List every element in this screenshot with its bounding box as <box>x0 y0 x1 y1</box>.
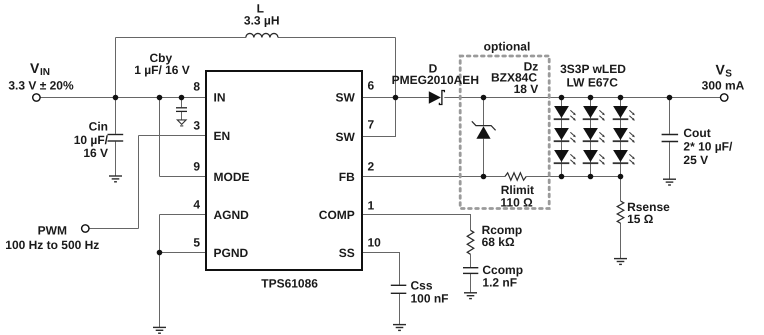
svg-text:1: 1 <box>368 199 375 213</box>
wire zener bottom drop to FB rail <box>483 139 485 177</box>
svg-text:Css: Css <box>411 278 433 292</box>
node zener top junction <box>481 95 487 101</box>
svg-text:optional: optional <box>484 39 531 53</box>
LED D1 <box>554 106 576 121</box>
svg-text:2* 10 µF/: 2* 10 µF/ <box>683 140 733 154</box>
svg-text:110 Ω: 110 Ω <box>500 195 533 209</box>
svg-text:IN: IN <box>214 90 226 104</box>
wire AGND stub <box>160 214 207 216</box>
wire MODE stub <box>160 176 207 178</box>
wire inductor loop top left segment <box>116 37 246 39</box>
terminal VS <box>721 94 728 101</box>
capacitor Ccomp <box>463 268 478 274</box>
wire PGND stub <box>160 252 207 254</box>
wire EN stub <box>139 135 207 137</box>
svg-text:V: V <box>30 60 40 76</box>
svg-text:COMP: COMP <box>319 208 355 222</box>
node VIN/Cby junction <box>179 95 185 101</box>
svg-text:10: 10 <box>368 236 382 250</box>
wire VIN rail <box>40 97 206 99</box>
svg-text:25 V: 25 V <box>683 153 708 167</box>
zener diode Dz BZX84C <box>472 121 496 139</box>
resistor Rcomp (vertical zigzag) <box>467 230 474 254</box>
svg-text:1 µF/ 16 V: 1 µF/ 16 V <box>134 63 190 77</box>
LED D8 <box>583 150 605 165</box>
svg-text:3.3 µH: 3.3 µH <box>244 14 280 28</box>
optional dashed box <box>460 56 549 209</box>
svg-text:18 V: 18 V <box>514 82 539 96</box>
svg-text:LW E67C: LW E67C <box>567 75 619 89</box>
capacitor Cin <box>108 135 124 142</box>
IC U1 TPS61086 body <box>206 71 362 270</box>
node LED col3 bottom <box>618 174 624 180</box>
terminal PWM <box>82 225 89 232</box>
node VIN/inductor/Cin junction <box>113 95 119 101</box>
node LED col2 top <box>588 95 594 101</box>
svg-text:PMEG2010AEH: PMEG2010AEH <box>392 73 479 87</box>
svg-text:16 V: 16 V <box>83 146 108 160</box>
svg-text:68 kΩ: 68 kΩ <box>482 235 515 249</box>
svg-text:PWM: PWM <box>38 224 67 238</box>
svg-text:Cin: Cin <box>89 120 108 134</box>
svg-text:3S3P wLED: 3S3P wLED <box>560 62 626 76</box>
wire AGND to PGND riser <box>159 215 161 253</box>
wire Rlimit to LED bottom rail <box>526 176 620 178</box>
svg-text:15 Ω: 15 Ω <box>627 212 654 226</box>
svg-text:TPS61086: TPS61086 <box>261 276 318 290</box>
capacitor Css <box>391 285 407 293</box>
wire Cout drop <box>669 98 671 134</box>
ground (Cout) <box>663 179 676 185</box>
svg-text:300 mA: 300 mA <box>702 78 745 92</box>
svg-text:3: 3 <box>193 119 200 133</box>
node LED col1 top <box>559 95 565 101</box>
svg-text:6: 6 <box>368 79 375 93</box>
wire Cby stub <box>181 98 183 108</box>
wire SW pin7 link <box>362 98 396 137</box>
wire LED column 2 <box>590 98 592 177</box>
svg-text:MODE: MODE <box>214 170 250 184</box>
svg-text:100 nF: 100 nF <box>411 292 449 306</box>
LED array 3S3P <box>554 106 635 165</box>
wire Rsense top lead <box>620 177 622 202</box>
svg-text:SW: SW <box>335 130 355 144</box>
wire LED column 1 <box>561 98 563 177</box>
svg-text:EN: EN <box>214 129 231 143</box>
wire Ccomp to ground <box>470 274 472 293</box>
LED D9 <box>613 150 635 165</box>
svg-text:PGND: PGND <box>214 246 249 260</box>
wire EN riser down to PWM <box>138 136 140 229</box>
node LED col3 top <box>618 95 624 101</box>
wire Cout to ground <box>669 142 671 179</box>
inductor L 3.3 uH <box>246 33 278 37</box>
wire Rcomp to Ccomp <box>470 254 472 267</box>
ground (Cin) <box>109 176 122 182</box>
wire output rail to VS <box>484 97 721 99</box>
diode D PMEG2010AEH (schottky) <box>429 91 445 105</box>
terminal VIN <box>33 94 40 101</box>
wire SS from IC <box>362 253 400 285</box>
LED D4 <box>554 128 576 143</box>
ground (Cby, arrow style) <box>177 120 186 126</box>
svg-text:1.2 nF: 1.2 nF <box>482 275 517 289</box>
ground (Css) <box>393 325 406 331</box>
wire PWM horizontal <box>89 228 139 230</box>
node Cout junction <box>667 95 673 101</box>
LED D2 <box>583 106 605 121</box>
resistor Rsense (vertical zigzag) <box>617 201 624 223</box>
svg-text:3.3 V ± 20%: 3.3 V ± 20% <box>8 78 74 92</box>
node AGND/PGND junction <box>157 250 163 256</box>
wire COMP from IC <box>362 215 471 231</box>
LED D6 <box>613 128 635 143</box>
ground (Ccomp) <box>464 293 477 299</box>
svg-text:IN: IN <box>40 67 50 78</box>
wire diode D cathode to zener node <box>444 97 483 99</box>
svg-text:2: 2 <box>368 160 375 174</box>
ground (Rsense) <box>614 259 627 265</box>
wire diode D anode <box>396 97 429 99</box>
resistor Rlimit (horizontal zigzag) <box>505 173 526 180</box>
wire inductor loop right riser to SW node <box>395 38 397 98</box>
svg-text:100 Hz to 500 Hz: 100 Hz to 500 Hz <box>5 238 99 252</box>
wire Cin branch down <box>115 98 117 134</box>
wire Cin cap to ground <box>115 142 117 176</box>
svg-text:8: 8 <box>193 80 200 94</box>
svg-text:9: 9 <box>193 160 200 174</box>
wire LED column 3 <box>620 98 622 177</box>
svg-text:5: 5 <box>193 236 200 250</box>
LED D3 <box>613 106 635 121</box>
wire zener top drop <box>483 98 485 126</box>
capacitor Cout <box>662 135 679 142</box>
LED D5 <box>583 128 605 143</box>
svg-text:SS: SS <box>339 246 355 260</box>
wire MODE branch riser <box>159 98 161 177</box>
svg-text:SW: SW <box>335 90 355 104</box>
node LED col2 bottom <box>588 174 594 180</box>
svg-text:V: V <box>716 61 726 77</box>
wire inductor loop top right segment <box>278 37 396 39</box>
svg-text:4: 4 <box>193 198 200 212</box>
wire Rsense bottom lead to ground <box>620 223 622 258</box>
node zener bottom / FB junction <box>481 174 487 180</box>
wire PGND node to ground <box>159 253 161 328</box>
wire SW pin6 stub <box>362 97 396 99</box>
LED D7 <box>554 150 576 165</box>
svg-text:Cout: Cout <box>683 126 710 140</box>
capacitor Cby <box>176 108 187 112</box>
svg-text:FB: FB <box>339 170 355 184</box>
svg-text:10 µF/: 10 µF/ <box>74 133 109 147</box>
svg-text:AGND: AGND <box>214 208 250 222</box>
svg-text:7: 7 <box>368 118 375 132</box>
wire Css to ground <box>399 294 401 324</box>
node LED col1 bottom <box>559 174 565 180</box>
wire FB from IC <box>362 176 505 178</box>
node VIN/MODE junction <box>157 95 163 101</box>
node SW junction <box>393 95 399 101</box>
ground (AGND/PGND) <box>153 327 166 333</box>
wire Cby cap to ground <box>181 112 183 120</box>
wire inductor loop left riser <box>115 38 117 98</box>
